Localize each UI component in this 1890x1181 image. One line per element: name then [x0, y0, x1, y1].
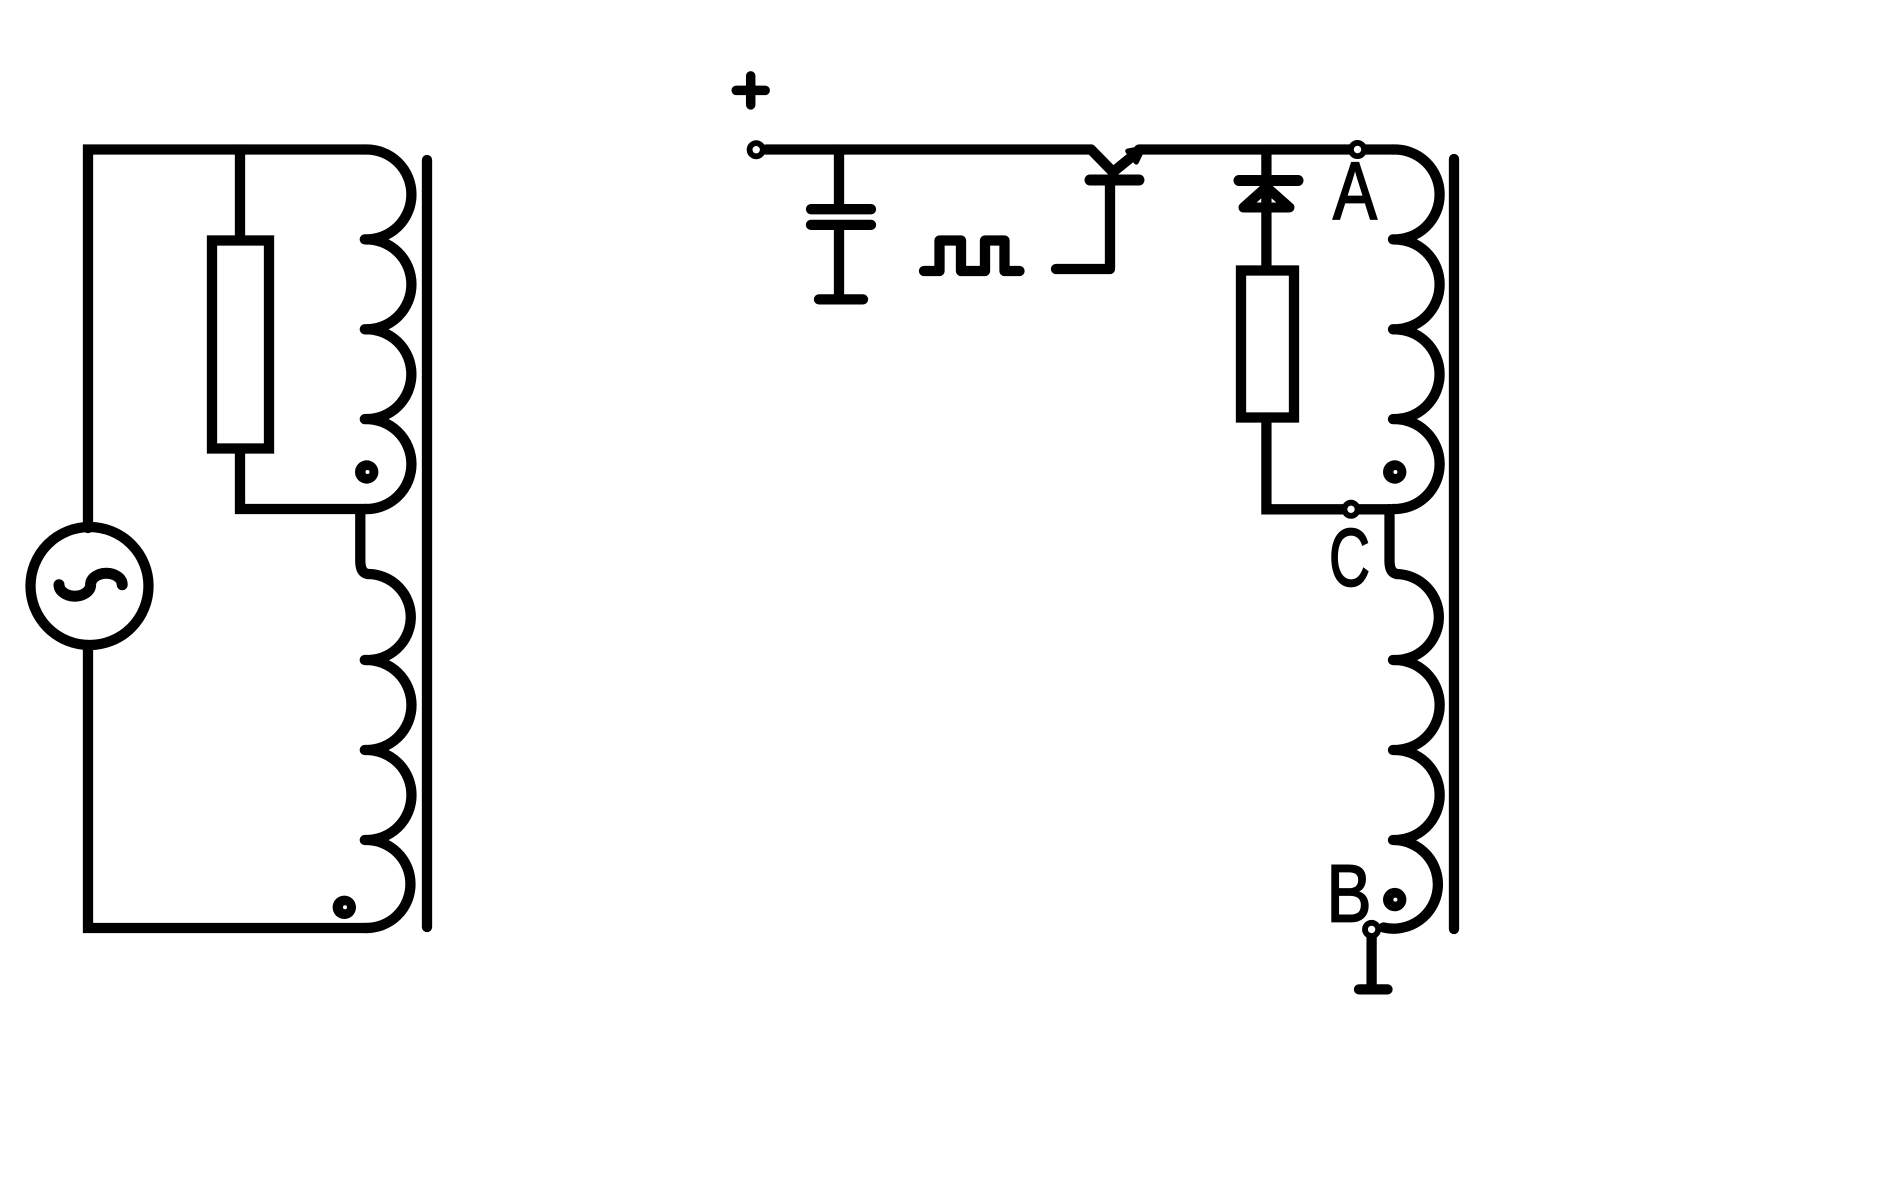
wire: stub between T2 windings: [1390, 509, 1397, 574]
wire: top horizontal from transistor to secondary winding: [1139, 144, 1393, 154]
node B open circle: [1365, 923, 1378, 936]
capacitor C1 top plate: [811, 204, 871, 214]
node A open circle: [1351, 143, 1364, 156]
transistor Q1 collector diagonal: [1091, 150, 1113, 173]
wire: resistor R2 bottom to node C junction: [1266, 418, 1388, 510]
capacitor C1 bottom plate: [811, 220, 871, 230]
AC source V1 circle: [31, 527, 149, 645]
wire: capacitor C1 to bottom bar: [834, 229, 844, 295]
capacitor C1 return bar: [819, 294, 863, 304]
transistor Q1 emitter diagonal: [1113, 151, 1140, 173]
wire: stub down to diode D1: [1261, 150, 1271, 177]
transformer T1 primary upper winding: [365, 149, 412, 509]
polarity dot T1 upper: [355, 460, 378, 483]
polarity dot T2 lower: [1383, 888, 1406, 911]
transformer T1 primary lower winding: [365, 574, 412, 928]
transistor Q1 emitter arrow: [1128, 148, 1143, 162]
wire: stub between T1 windings: [360, 509, 367, 574]
transformer T1 core: [422, 160, 432, 927]
pulse waveform symbol: [924, 241, 1020, 272]
ground lead from node B: [1366, 937, 1376, 985]
transformer T2 core: [1449, 159, 1459, 929]
wire: transistor Q1 base lead down and left: [1056, 184, 1110, 269]
ground bar: [1359, 984, 1388, 994]
node C open circle: [1344, 503, 1357, 516]
transistor Q1 base bar: [1090, 175, 1139, 186]
diode D1 triangle: [1244, 187, 1290, 208]
wire: top horizontal from terminal to transistor Q1: [766, 144, 1091, 154]
AC source V1 sine squiggle: [59, 573, 122, 596]
diode D1 cathode bar: [1239, 175, 1298, 186]
resistor R2: [1241, 271, 1294, 418]
wire: resistor R1 bottom to winding mid junction: [240, 449, 367, 510]
polarity dot T2 upper: [1383, 460, 1406, 483]
transformer T2 lower winding: [1384, 574, 1440, 929]
wire: stub down to capacitor C1: [834, 150, 844, 206]
transformer T2 secondary upper winding: [1393, 149, 1440, 509]
wire: diode D1 to resistor R2: [1261, 184, 1271, 266]
plus terminal label: [736, 76, 765, 105]
wire: stub from top wire down to resistor R1: [235, 150, 245, 237]
wire: left vertical from AC source and bottom horizontal to winding: [88, 645, 367, 928]
resistor R1: [212, 241, 269, 449]
svg-text:A: A: [1333, 146, 1377, 237]
svg-text:C: C: [1329, 512, 1370, 603]
terminal open circle: [750, 143, 763, 156]
polarity dot T1 lower: [333, 896, 356, 919]
wire: left loop top horizontal and left vertical to AC source: [88, 150, 365, 529]
svg-text:B: B: [1327, 849, 1372, 940]
